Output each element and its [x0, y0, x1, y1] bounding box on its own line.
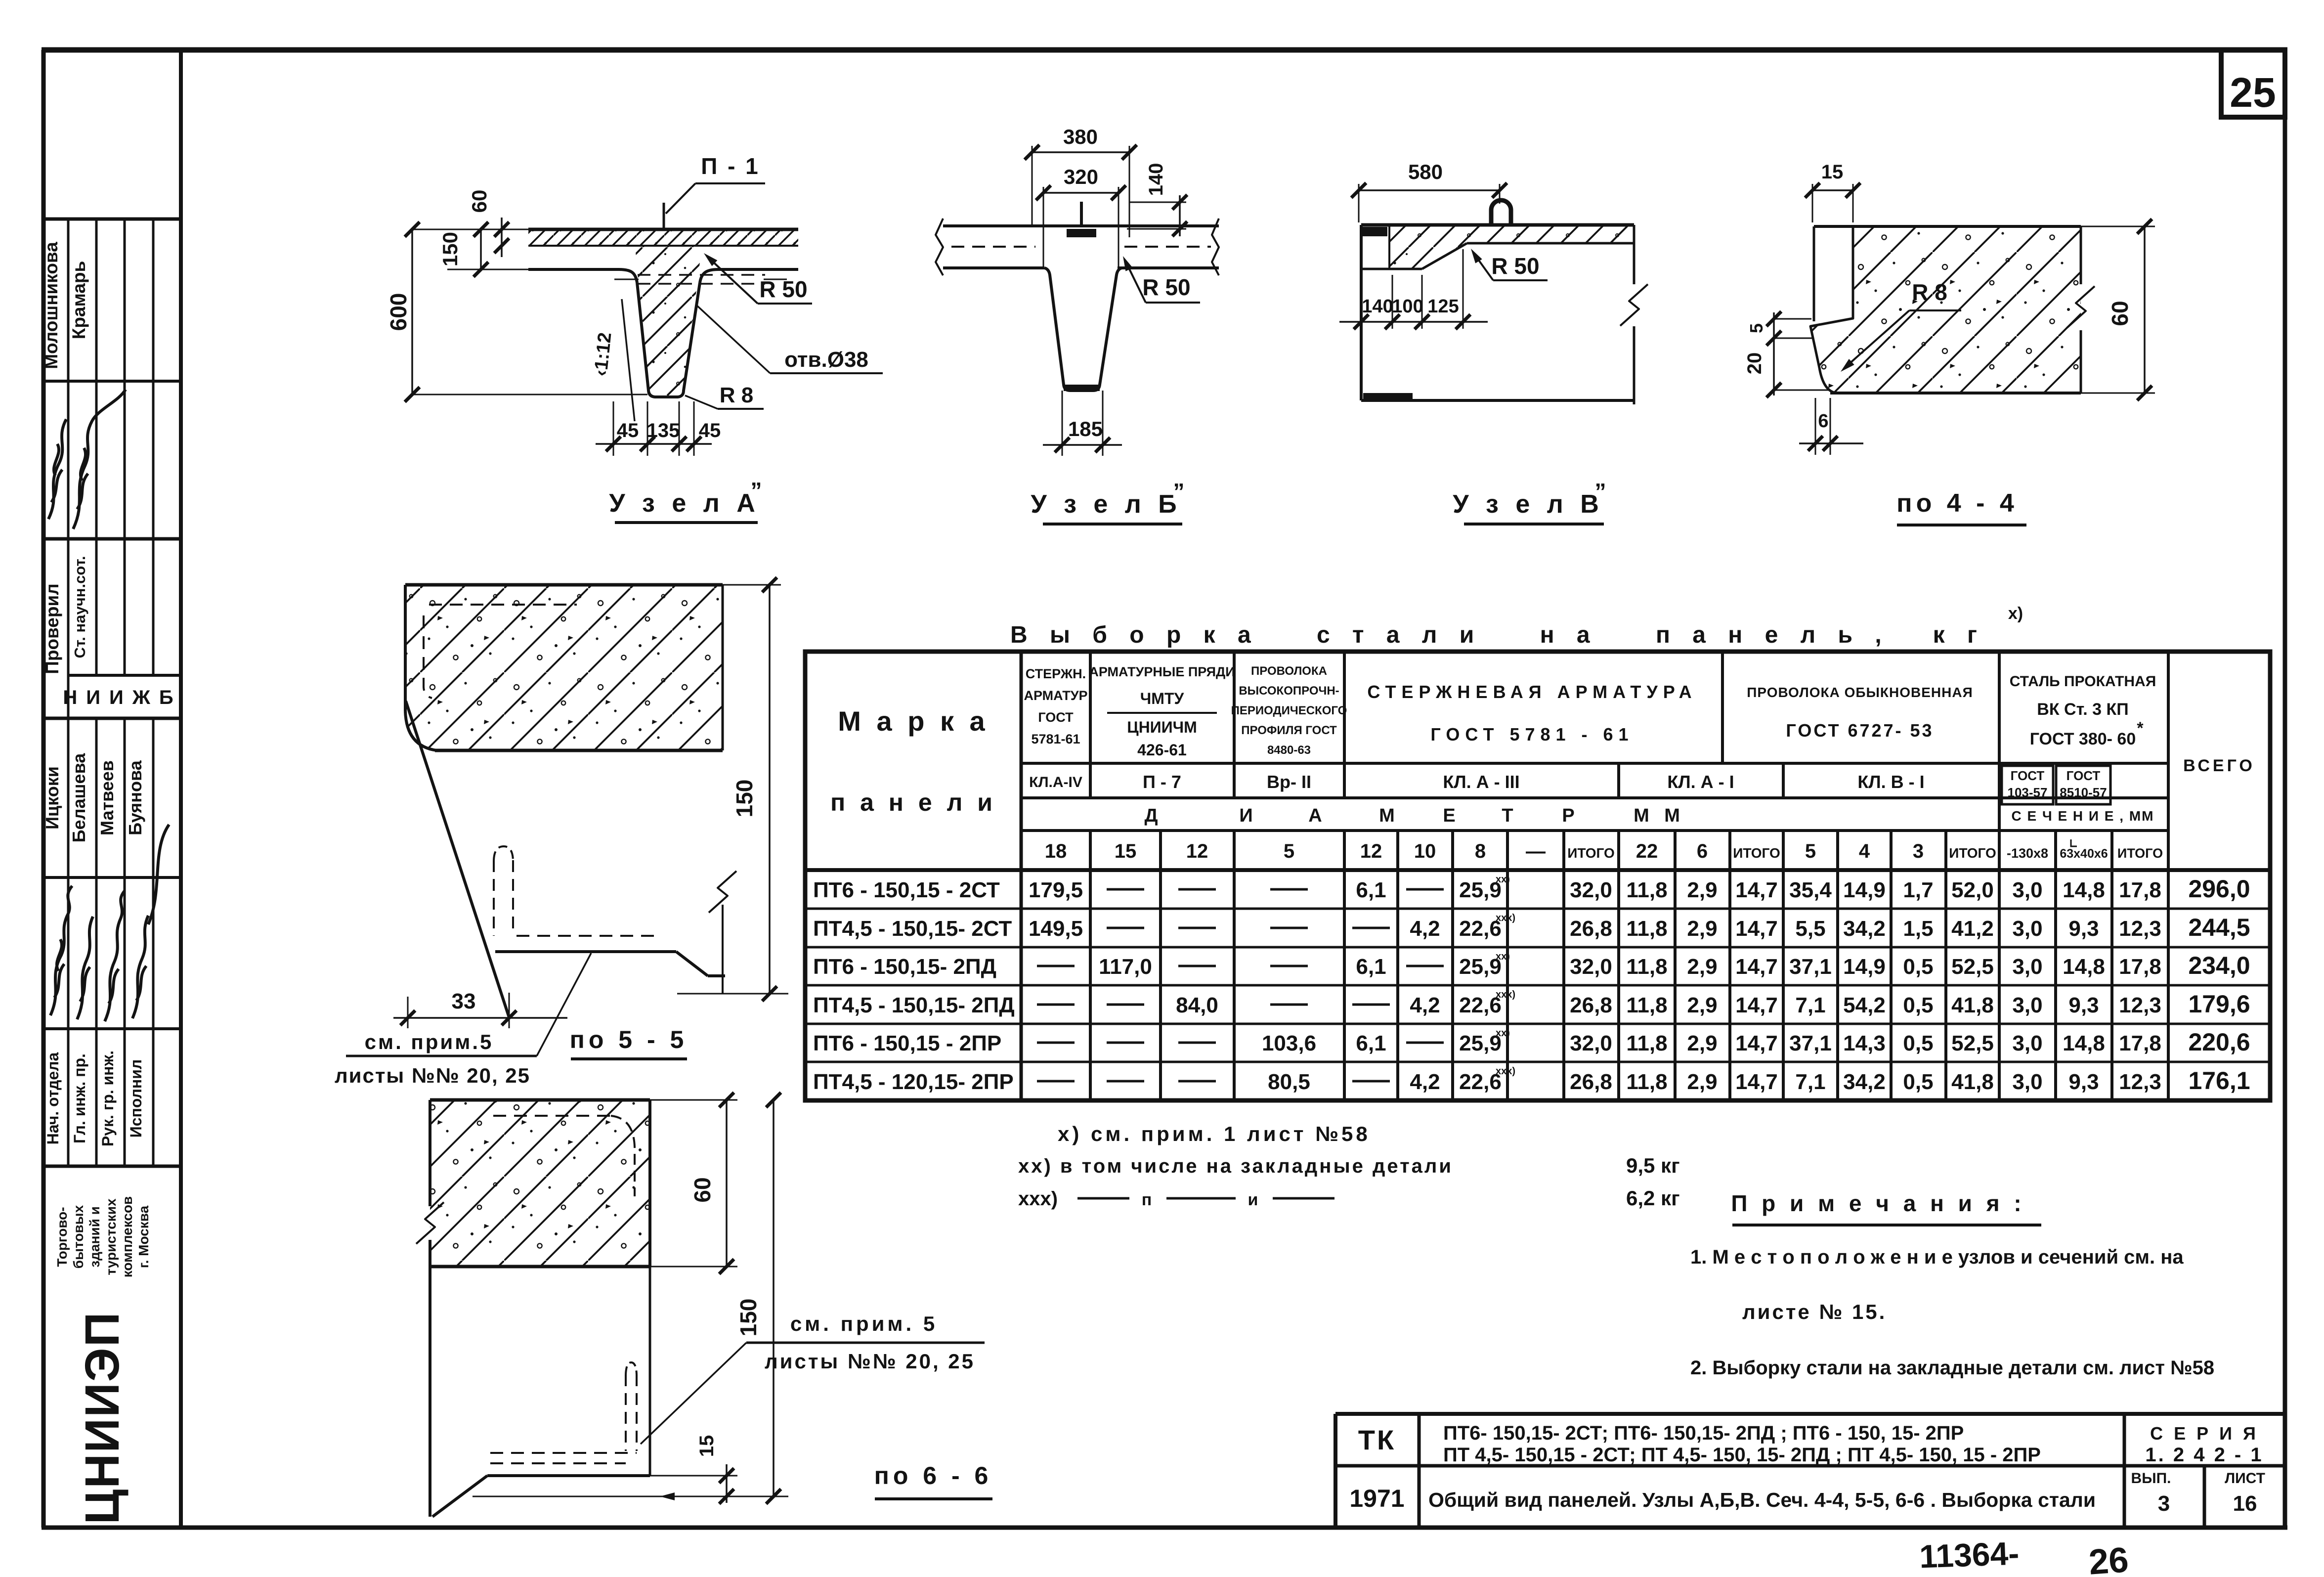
svg-text:ИТОГО: ИТОГО: [1733, 845, 1780, 861]
svg-text:Ст. научн.сот.: Ст. научн.сот.: [71, 556, 88, 658]
svg-text:ВК Ст. 3 КП: ВК Ст. 3 КП: [2037, 700, 2128, 719]
svg-text:26,8: 26,8: [1570, 993, 1612, 1017]
svg-text:2,9: 2,9: [1687, 1070, 1717, 1094]
svg-text:ЧМТУ: ЧМТУ: [1140, 690, 1185, 707]
svg-text:32,0: 32,0: [1570, 878, 1612, 902]
svg-text:14,8: 14,8: [2063, 878, 2105, 902]
svg-text:0,5: 0,5: [1903, 993, 1933, 1017]
svg-text:3,0: 3,0: [2012, 955, 2042, 979]
svg-text:150: 150: [732, 780, 757, 818]
svg-text:14,8: 14,8: [2063, 955, 2105, 979]
svg-text:-130х8: -130х8: [2007, 846, 2048, 861]
svg-text:179,5: 179,5: [1029, 878, 1083, 902]
svg-text:4: 4: [1859, 840, 1870, 862]
svg-text:ИТОГО: ИТОГО: [1567, 845, 1615, 861]
svg-text:6,1: 6,1: [1356, 955, 1386, 979]
svg-text:СТЕРЖН.: СТЕРЖН.: [1026, 666, 1086, 681]
svg-text:22,6: 22,6: [1459, 917, 1502, 941]
svg-text:ГОСТ 380- 60: ГОСТ 380- 60: [2030, 730, 2136, 748]
svg-text:2. Выборку стали на закл: 2. Выборку стали на закладные детали см.…: [1690, 1357, 2214, 1379]
svg-text:П - 1: П - 1: [701, 153, 760, 179]
svg-text:9,3: 9,3: [2068, 993, 2099, 1017]
svg-text:26,8: 26,8: [1570, 1070, 1612, 1094]
svg-text:ГОСТ 5781 - 61: ГОСТ 5781 - 61: [1430, 724, 1634, 745]
svg-text:см. прим.5: см. прим.5: [365, 1030, 494, 1053]
svg-text:3,0: 3,0: [2012, 878, 2042, 902]
svg-text:26: 26: [2088, 1540, 2130, 1577]
svg-text:Е: Е: [1443, 805, 1455, 826]
svg-text:26,8: 26,8: [1570, 917, 1612, 941]
svg-text:х) см. прим. 1 лист №58: х) см. прим. 1 лист №58: [1058, 1122, 1371, 1145]
svg-text:ПТ4,5 - 150,15- 2ПД: ПТ4,5 - 150,15- 2ПД: [813, 993, 1015, 1017]
svg-text:17,8: 17,8: [2119, 955, 2161, 979]
svg-text:14,7: 14,7: [1735, 917, 1778, 941]
svg-text:12,3: 12,3: [2119, 993, 2161, 1017]
svg-text:150: 150: [438, 232, 462, 266]
svg-text:ВЫП.: ВЫП.: [2131, 1470, 2171, 1487]
svg-text:34,2: 34,2: [1843, 917, 1886, 941]
svg-text:6,1: 6,1: [1356, 878, 1386, 902]
svg-text:35,4: 35,4: [1789, 878, 1832, 902]
svg-text:6,2 кг: 6,2 кг: [1626, 1186, 1680, 1210]
svg-text:зданий и: зданий и: [87, 1206, 102, 1268]
svg-text:ххх): ххх): [1018, 1188, 1058, 1210]
svg-text:Ицкоки: Ицкоки: [42, 766, 62, 830]
svg-text:по 6 - 6: по 6 - 6: [874, 1462, 992, 1489]
svg-text:8510-57: 8510-57: [2060, 785, 2107, 800]
svg-text:7,1: 7,1: [1795, 993, 1825, 1017]
svg-text:11,8: 11,8: [1626, 1031, 1667, 1055]
svg-text:1971: 1971: [1349, 1485, 1404, 1512]
svg-text:41,8: 41,8: [1951, 1070, 1994, 1094]
svg-text:ВСЕГО: ВСЕГО: [2183, 756, 2255, 775]
svg-text:R 8: R 8: [1912, 279, 1947, 305]
svg-text:45: 45: [617, 420, 639, 441]
svg-text:ххх): ххх): [1496, 913, 1515, 923]
svg-text:14,8: 14,8: [2063, 1031, 2105, 1055]
svg-text:ГОСТ: ГОСТ: [2066, 768, 2101, 783]
svg-text:КЛ. В - I: КЛ. В - I: [1857, 772, 1924, 792]
svg-text:Молошникова: Молошникова: [41, 242, 61, 369]
svg-text:комплексов: комплексов: [120, 1196, 135, 1278]
svg-text:по 5 - 5: по 5 - 5: [570, 1026, 688, 1053]
svg-text:У з е л Б: У з е л Б: [1031, 490, 1181, 519]
svg-text:100: 100: [1392, 296, 1423, 317]
svg-text:84,0: 84,0: [1176, 993, 1218, 1017]
svg-text:ПРОВОЛОКА: ПРОВОЛОКА: [1251, 664, 1327, 678]
svg-text:ПТ4,5 - 150,15- 2СТ: ПТ4,5 - 150,15- 2СТ: [813, 917, 1012, 941]
svg-text:ПТ6 - 150,15- 2ПД: ПТ6 - 150,15- 2ПД: [813, 955, 996, 979]
svg-text:185: 185: [1068, 417, 1103, 440]
svg-text:2,9: 2,9: [1687, 993, 1717, 1017]
svg-text:5: 5: [1284, 840, 1294, 862]
svg-text:”: ”: [1173, 479, 1185, 504]
svg-text:п: п: [1142, 1190, 1152, 1209]
svg-text:хх): хх): [1496, 1028, 1510, 1039]
svg-text:М М: М М: [1634, 805, 1685, 826]
svg-text:14,7: 14,7: [1735, 878, 1778, 902]
svg-text:АРМАТУР: АРМАТУР: [1024, 688, 1087, 703]
svg-text:ПЕРИОДИЧЕСКОГО: ПЕРИОДИЧЕСКОГО: [1231, 704, 1347, 717]
svg-text:140: 140: [1362, 296, 1393, 317]
svg-text:хх) в том числе на заклад: хх) в том числе на закладные детали: [1018, 1155, 1453, 1177]
svg-text:ЛИСТ: ЛИСТ: [2225, 1470, 2265, 1487]
svg-text:25,9: 25,9: [1459, 878, 1502, 902]
svg-text:17,8: 17,8: [2119, 878, 2161, 902]
svg-text:25: 25: [2230, 69, 2276, 116]
svg-text:25,9: 25,9: [1459, 1031, 1502, 1055]
svg-text:14,9: 14,9: [1843, 878, 1886, 902]
svg-text:х): х): [2008, 604, 2023, 623]
svg-text:4,2: 4,2: [1410, 917, 1440, 941]
svg-text:41,8: 41,8: [1951, 993, 1994, 1017]
svg-text:”: ”: [1595, 479, 1606, 504]
svg-text:4,2: 4,2: [1410, 1070, 1440, 1094]
svg-text:15: 15: [1115, 840, 1137, 862]
svg-text:10: 10: [1414, 840, 1436, 862]
svg-text:2,9: 2,9: [1687, 955, 1717, 979]
svg-text:2,9: 2,9: [1687, 1031, 1717, 1055]
svg-text:листы №№ 20, 25: листы №№ 20, 25: [335, 1064, 530, 1087]
svg-text:ПТ 4,5- 150,15 - 2СТ; ПТ 4: ПТ 4,5- 150,15 - 2СТ; ПТ 4,5- 150, 15- 2…: [1443, 1444, 2041, 1466]
svg-text:14,9: 14,9: [1843, 955, 1886, 979]
svg-text:150: 150: [735, 1299, 761, 1337]
svg-text:11,8: 11,8: [1626, 917, 1667, 941]
svg-text:176,1: 176,1: [2188, 1067, 2250, 1095]
svg-text:3: 3: [2158, 1491, 2170, 1516]
svg-text:11,8: 11,8: [1626, 878, 1667, 902]
svg-text:17,8: 17,8: [2119, 1031, 2161, 1055]
svg-text:П - 7: П - 7: [1143, 772, 1181, 792]
svg-text:3,0: 3,0: [2012, 1070, 2042, 1094]
svg-text:Крамарь: Крамарь: [69, 261, 89, 340]
svg-text:ПТ6 - 150,15 - 2СТ: ПТ6 - 150,15 - 2СТ: [813, 878, 1000, 902]
svg-text:52,5: 52,5: [1951, 1031, 1994, 1055]
svg-text:ГОСТ: ГОСТ: [2011, 768, 2045, 783]
svg-text:52,0: 52,0: [1951, 878, 1994, 902]
svg-text:ГОСТ: ГОСТ: [1038, 710, 1074, 725]
svg-text:12,3: 12,3: [2119, 1070, 2161, 1094]
svg-text:R 50: R 50: [1142, 274, 1190, 300]
svg-text:КЛ.А-IV: КЛ.А-IV: [1029, 774, 1082, 790]
svg-text:32,0: 32,0: [1570, 1031, 1612, 1055]
svg-text:234,0: 234,0: [2188, 952, 2250, 979]
svg-text:Рук. гр. инж.: Рук. гр. инж.: [99, 1051, 117, 1146]
svg-text:22: 22: [1636, 840, 1658, 862]
svg-text:296,0: 296,0: [2188, 875, 2250, 903]
svg-text:103,6: 103,6: [1262, 1031, 1316, 1055]
svg-text:9,5 кг: 9,5 кг: [1626, 1154, 1680, 1177]
svg-text:СТЕРЖНЕВАЯ АРМАТУРА: СТЕРЖНЕВАЯ АРМАТУРА: [1367, 682, 1697, 702]
svg-text:Матвеев: Матвеев: [97, 760, 117, 835]
svg-text:135: 135: [647, 420, 680, 441]
svg-text:КЛ. А - I: КЛ. А - I: [1667, 772, 1734, 792]
svg-text:8480-63: 8480-63: [1267, 744, 1311, 757]
svg-text:37,1: 37,1: [1789, 955, 1832, 979]
svg-text:600: 600: [386, 293, 411, 331]
svg-text:бытовых: бытовых: [71, 1205, 86, 1269]
svg-text:1. 2 4 2 - 1: 1. 2 4 2 - 1: [2145, 1444, 2263, 1466]
svg-text:”: ”: [751, 478, 762, 503]
svg-text:С Е Ч Е Н И Е , ММ: С Е Ч Е Н И Е , ММ: [2012, 808, 2154, 824]
svg-text:листы №№ 20, 25: листы №№ 20, 25: [765, 1350, 975, 1373]
svg-text:11,8: 11,8: [1626, 1070, 1667, 1094]
svg-text:3,0: 3,0: [2012, 993, 2042, 1017]
svg-text:А: А: [1308, 805, 1322, 826]
svg-text:R 50: R 50: [759, 276, 807, 302]
svg-text:по 4 - 4: по 4 - 4: [1896, 489, 2018, 518]
svg-text:5: 5: [1746, 323, 1766, 333]
svg-text:п а н е л и: п а н е л и: [830, 788, 996, 816]
svg-text:КЛ. А - III: КЛ. А - III: [1443, 772, 1519, 792]
svg-text:АРМАТУРНЫЕ ПРЯДИ: АРМАТУРНЫЕ ПРЯДИ: [1089, 664, 1235, 679]
svg-text:0,5: 0,5: [1903, 1070, 1933, 1094]
svg-text:У з е л А: У з е л А: [609, 489, 760, 518]
svg-text:45: 45: [699, 420, 721, 441]
svg-text:22,6: 22,6: [1459, 1070, 1502, 1094]
svg-text:Исполнил: Исполнил: [127, 1059, 145, 1138]
svg-text:12,3: 12,3: [2119, 917, 2161, 941]
svg-text:листе № 15.: листе № 15.: [1742, 1300, 1887, 1323]
svg-text:Нач. отдела: Нач. отдела: [44, 1052, 62, 1144]
svg-text:54,2: 54,2: [1843, 993, 1886, 1017]
svg-text:580: 580: [1408, 160, 1443, 183]
svg-text:16: 16: [2233, 1491, 2257, 1516]
svg-text:R 50: R 50: [1491, 253, 1539, 279]
svg-text:6,1: 6,1: [1356, 1031, 1386, 1055]
svg-text:Торгово-: Торгово-: [54, 1207, 70, 1267]
svg-text:отв.Ø38: отв.Ø38: [784, 348, 868, 372]
svg-text:Белашева: Белашева: [69, 753, 89, 842]
svg-text:СТАЛЬ ПРОКАТНАЯ: СТАЛЬ ПРОКАТНАЯ: [2010, 673, 2156, 690]
svg-text:37,1: 37,1: [1789, 1031, 1832, 1055]
svg-text:5,5: 5,5: [1795, 917, 1825, 941]
svg-text:Гл. инж. пр.: Гл. инж. пр.: [71, 1053, 88, 1143]
svg-text:3: 3: [1913, 840, 1924, 862]
svg-text:9,3: 9,3: [2068, 917, 2099, 941]
svg-text:П р и м е ч а н и я :: П р и м е ч а н и я :: [1731, 1190, 2025, 1216]
svg-text:320: 320: [1064, 165, 1098, 188]
svg-text:1. М е с т о п о л о ж е н и: 1. М е с т о п о л о ж е н и е узлов и с…: [1690, 1246, 2184, 1268]
svg-text:ЦНИИЧМ: ЦНИИЧМ: [1127, 718, 1197, 736]
svg-text:см. прим. 5: см. прим. 5: [790, 1312, 938, 1335]
svg-text:11364-: 11364-: [1919, 1535, 2020, 1575]
svg-text:25,9: 25,9: [1459, 955, 1502, 979]
svg-text:179,6: 179,6: [2188, 990, 2250, 1018]
svg-text:г. Москва: г. Москва: [136, 1205, 151, 1268]
svg-text:Д: Д: [1144, 805, 1158, 826]
svg-text:6: 6: [1697, 840, 1708, 862]
svg-text:НИИЖБ: НИИЖБ: [63, 687, 182, 708]
svg-text:14,7: 14,7: [1735, 1031, 1778, 1055]
svg-text:15: 15: [1821, 161, 1844, 183]
svg-text:34,2: 34,2: [1843, 1070, 1886, 1094]
svg-text:ИТОГО: ИТОГО: [1949, 845, 1996, 861]
svg-text:*: *: [2137, 719, 2144, 738]
svg-text:7,1: 7,1: [1795, 1070, 1825, 1094]
svg-text:14,7: 14,7: [1735, 993, 1778, 1017]
svg-text:В ы б о р к а с т а л и: В ы б о р к а с т а л и н а п а н е л ь …: [1010, 622, 1985, 648]
svg-text:—: —: [1526, 840, 1546, 862]
svg-text:22,6: 22,6: [1459, 993, 1502, 1017]
svg-text:И: И: [1239, 805, 1252, 826]
svg-text:ИТОГО: ИТОГО: [2117, 846, 2163, 861]
svg-text:У з е л В: У з е л В: [1453, 490, 1604, 519]
svg-text:0,5: 0,5: [1903, 1031, 1933, 1055]
svg-text:ПТ6 - 150,15 - 2ПР: ПТ6 - 150,15 - 2ПР: [813, 1031, 1001, 1055]
svg-text:60: 60: [2107, 301, 2133, 326]
svg-text:12: 12: [1360, 840, 1382, 862]
svg-text:ПТ6- 150,15- 2СТ; ПТ6- 15: ПТ6- 150,15- 2СТ; ПТ6- 150,15- 2ПД ; ПТ6…: [1443, 1422, 1964, 1444]
svg-text:32,0: 32,0: [1570, 955, 1612, 979]
svg-text:14,3: 14,3: [1843, 1031, 1886, 1055]
svg-text:380: 380: [1063, 125, 1098, 148]
svg-text:63х40х6: 63х40х6: [2060, 847, 2108, 861]
svg-text:103-57: 103-57: [2008, 785, 2048, 800]
svg-text:125: 125: [1427, 296, 1459, 317]
svg-text:1,5: 1,5: [1903, 917, 1933, 941]
svg-text:С Е Р И Я: С Е Р И Я: [2150, 1423, 2259, 1444]
svg-text:6: 6: [1818, 411, 1828, 432]
svg-text:14,7: 14,7: [1735, 955, 1778, 979]
svg-text:11,8: 11,8: [1626, 993, 1667, 1017]
svg-text:и: и: [1248, 1190, 1258, 1209]
svg-text:11,8: 11,8: [1626, 955, 1667, 979]
svg-text:3,0: 3,0: [2012, 917, 2042, 941]
svg-text:туристских: туристских: [103, 1198, 119, 1275]
svg-text:52,5: 52,5: [1951, 955, 1994, 979]
svg-text:2,9: 2,9: [1687, 878, 1717, 902]
svg-text:9,3: 9,3: [2068, 1070, 2099, 1094]
svg-text:60: 60: [468, 190, 491, 213]
svg-text:2,9: 2,9: [1687, 917, 1717, 941]
svg-text:ПРОФИЛЯ ГОСТ: ПРОФИЛЯ ГОСТ: [1241, 724, 1337, 737]
svg-text:Р: Р: [1562, 805, 1574, 826]
svg-text:ВЫСОКОПРОЧН-: ВЫСОКОПРОЧН-: [1239, 684, 1339, 698]
svg-text:426-61: 426-61: [1137, 741, 1187, 759]
svg-text:41,2: 41,2: [1951, 917, 1994, 941]
svg-text:220,6: 220,6: [2188, 1028, 2250, 1056]
svg-text:ПРОВОЛОКА ОБЫКНОВЕННАЯ: ПРОВОЛОКА ОБЫКНОВЕННАЯ: [1747, 685, 1973, 700]
svg-text:12: 12: [1186, 840, 1208, 862]
svg-text:5781-61: 5781-61: [1031, 732, 1080, 746]
svg-text:Буянова: Буянова: [125, 760, 145, 835]
svg-text:149,5: 149,5: [1029, 917, 1083, 941]
svg-text:Вр- II: Вр- II: [1267, 772, 1311, 792]
svg-text:ххх): ххх): [1496, 1066, 1515, 1077]
svg-text:ЦНИИЭП: ЦНИИЭП: [75, 1311, 129, 1524]
svg-text:Т: Т: [1502, 805, 1513, 826]
svg-text:20: 20: [1744, 352, 1765, 375]
svg-text:244,5: 244,5: [2188, 914, 2250, 941]
svg-text:8: 8: [1475, 840, 1486, 862]
svg-text:4,2: 4,2: [1410, 993, 1440, 1017]
svg-text:33: 33: [452, 989, 476, 1013]
svg-text:хх): хх): [1496, 951, 1510, 962]
svg-text:М: М: [1379, 805, 1395, 826]
svg-text:хх): хх): [1496, 874, 1510, 885]
svg-text:Проверил: Проверил: [42, 583, 62, 674]
svg-text:ТК: ТК: [1358, 1424, 1396, 1455]
svg-text:Общий вид панелей. Узлы А,Б,: Общий вид панелей. Узлы А,Б,В. Сеч. 4-4,…: [1428, 1489, 2096, 1511]
svg-text:R 8: R 8: [720, 383, 753, 407]
svg-text:140: 140: [1145, 163, 1167, 196]
svg-text:80,5: 80,5: [1268, 1070, 1310, 1094]
svg-text:60: 60: [689, 1177, 715, 1202]
svg-text:М а р к а: М а р к а: [838, 705, 989, 737]
svg-text:ПТ4,5 - 120,15- 2ПР: ПТ4,5 - 120,15- 2ПР: [813, 1070, 1014, 1094]
svg-text:ххх): ххх): [1496, 989, 1515, 1000]
svg-text:ГОСТ 6727- 53: ГОСТ 6727- 53: [1786, 720, 1934, 741]
svg-text:117,0: 117,0: [1099, 955, 1152, 979]
svg-text:3,0: 3,0: [2012, 1031, 2042, 1055]
svg-text:5: 5: [1805, 840, 1816, 862]
svg-text:15: 15: [696, 1435, 718, 1457]
svg-text:1,7: 1,7: [1903, 878, 1933, 902]
svg-text:18: 18: [1045, 840, 1067, 862]
svg-text:0,5: 0,5: [1903, 955, 1933, 979]
svg-text:14,7: 14,7: [1735, 1070, 1778, 1094]
